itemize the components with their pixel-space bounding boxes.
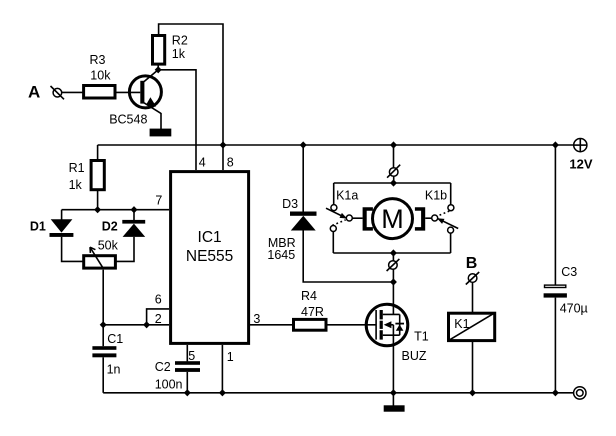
diode D1 bbox=[30, 210, 74, 237]
relay contact K1a bbox=[326, 189, 358, 232]
terminal A bbox=[28, 82, 64, 101]
resistor R1 bbox=[69, 145, 105, 192]
junction bridge top bbox=[390, 179, 397, 186]
junction pin2/6 bbox=[143, 321, 150, 328]
junction C3/rail bbox=[552, 389, 559, 396]
supply rail 12V (top) bbox=[98, 144, 574, 146]
junction rail/D3 bbox=[300, 141, 307, 148]
diode D3 MBR1645 bbox=[267, 145, 316, 262]
svg-text:D3: D3 bbox=[282, 197, 298, 211]
diode D2 bbox=[102, 210, 146, 237]
wire bridge top rail bbox=[334, 182, 451, 184]
junction C2/rail bbox=[184, 389, 191, 396]
svg-text:12V: 12V bbox=[569, 156, 592, 171]
svg-text:C3: C3 bbox=[561, 265, 577, 279]
capacitor C1 bbox=[92, 325, 123, 377]
wire R2 bottom / collector node to pin 4 bbox=[158, 66, 196, 171]
wire pin 1 to ground rail bbox=[221, 345, 223, 393]
svg-text:10k: 10k bbox=[90, 68, 111, 82]
junction T1/rail bbox=[390, 389, 397, 396]
svg-text:6: 6 bbox=[155, 293, 162, 307]
svg-text:R4: R4 bbox=[301, 289, 317, 303]
svg-text:C1: C1 bbox=[107, 332, 123, 346]
svg-text:R2: R2 bbox=[172, 33, 188, 47]
wire K1a top lead bbox=[333, 183, 335, 205]
pin 2/6 tie bbox=[147, 309, 169, 325]
junction rail/C3 bbox=[552, 141, 559, 148]
svg-text:T1: T1 bbox=[414, 330, 429, 344]
wire bridge bottom rail bbox=[333, 252, 450, 254]
MOSFET T1 BUZ bbox=[366, 282, 429, 363]
wire K1a to motor bbox=[352, 217, 362, 219]
12V terminal bbox=[569, 139, 592, 172]
motor M bbox=[363, 199, 426, 239]
relay coil K1 bbox=[448, 313, 495, 341]
wire C1 bottom to ground rail bbox=[102, 357, 104, 393]
svg-text:47R: 47R bbox=[301, 305, 324, 319]
svg-text:1: 1 bbox=[227, 350, 234, 364]
svg-text:1n: 1n bbox=[107, 363, 121, 377]
svg-text:470µ: 470µ bbox=[560, 302, 588, 316]
resistor R2 bbox=[153, 33, 188, 64]
junction pin1/rail bbox=[219, 389, 226, 396]
svg-text:M: M bbox=[381, 204, 404, 234]
svg-text:2: 2 bbox=[155, 312, 162, 326]
wire pin 5 to C2 bbox=[186, 345, 188, 361]
wire R1 bottom to pin7 node bbox=[97, 190, 99, 210]
wire D3 to drain node bbox=[303, 231, 393, 283]
junction D2/pin7 bbox=[131, 206, 138, 213]
wire ground stub bbox=[392, 393, 394, 406]
wire R2 top to pin8 line bbox=[159, 24, 223, 170]
wire 12V rail to C3 bbox=[554, 145, 556, 285]
svg-text:A: A bbox=[28, 82, 40, 101]
junction rail/bridge bbox=[390, 141, 397, 148]
wire pot wiper down to C1 node bbox=[102, 270, 104, 325]
relay contact K1b bbox=[425, 189, 458, 234]
junction pot/C1 bbox=[100, 321, 107, 328]
wire A to R3 bbox=[62, 91, 83, 93]
wire Q1 emitter to ground bbox=[160, 113, 162, 129]
svg-text:3: 3 bbox=[253, 312, 260, 326]
svg-text:R1: R1 bbox=[69, 161, 85, 175]
svg-text:IC1: IC1 bbox=[198, 229, 222, 246]
capacitor C3 470u bbox=[544, 265, 588, 316]
wire C2 bottom to ground rail bbox=[186, 372, 188, 393]
wire T1 source to ground rail bbox=[392, 335, 394, 393]
wire K1b bottom lead bbox=[450, 233, 452, 253]
junction bridge bottom bbox=[390, 249, 397, 256]
ground (Q1 emitter) bbox=[150, 129, 172, 137]
wire pin 3 to R4 bbox=[250, 324, 294, 326]
svg-text:D2: D2 bbox=[102, 220, 118, 234]
terminal B bbox=[466, 255, 479, 285]
wire B to relay K1 bbox=[472, 282, 474, 313]
svg-text:K1: K1 bbox=[454, 317, 469, 331]
svg-text:BC548: BC548 bbox=[109, 112, 147, 126]
potentiometer P1 50k bbox=[84, 238, 119, 269]
svg-text:5: 5 bbox=[188, 349, 195, 363]
svg-text:R3: R3 bbox=[90, 53, 106, 67]
bridge bottom connector bbox=[387, 253, 400, 282]
svg-text:C2: C2 bbox=[155, 360, 171, 374]
resistor R3 bbox=[84, 53, 115, 98]
wire D1 to pot left bbox=[62, 237, 84, 262]
IC1 NE555 bbox=[171, 172, 249, 344]
svg-text:1645: 1645 bbox=[267, 248, 295, 262]
svg-text:100n: 100n bbox=[155, 378, 183, 392]
transistor Q1 BC548 bbox=[109, 70, 161, 127]
junction collector node bbox=[155, 66, 162, 73]
svg-text:B: B bbox=[466, 255, 478, 272]
wire C1 node to pin2 bbox=[103, 324, 169, 326]
ground (T1 source) bbox=[384, 405, 405, 411]
wire R4 to T1 gate bbox=[326, 324, 376, 326]
junction drain node bbox=[390, 278, 397, 285]
wire K1b top lead bbox=[450, 183, 452, 205]
svg-text:D1: D1 bbox=[30, 219, 46, 233]
bridge top connector bbox=[387, 145, 400, 183]
capacitor C2 bbox=[155, 360, 200, 392]
resistor R4 bbox=[294, 289, 327, 330]
junction rail/pin8 bbox=[220, 141, 227, 148]
svg-text:NE555: NE555 bbox=[186, 248, 233, 265]
svg-text:K1b: K1b bbox=[425, 189, 447, 203]
wire C3 to ground rail bbox=[554, 298, 556, 393]
svg-text:4: 4 bbox=[199, 155, 206, 169]
wire D2 to pot right bbox=[116, 237, 135, 262]
output terminal (0V) bbox=[574, 387, 586, 399]
wire motor to K1b bbox=[425, 217, 432, 219]
svg-text:8: 8 bbox=[227, 155, 234, 169]
junction R1/pin7 bbox=[94, 206, 101, 213]
wire pin 7 horizontal bbox=[62, 209, 169, 211]
ground rail (bottom) bbox=[103, 392, 574, 394]
wire R3 to Q1 base bbox=[117, 91, 141, 93]
svg-text:50k: 50k bbox=[98, 238, 119, 252]
wire K1 to ground rail bbox=[472, 341, 474, 393]
svg-text:K1a: K1a bbox=[336, 189, 358, 203]
svg-text:BUZ: BUZ bbox=[402, 349, 427, 363]
svg-text:1k: 1k bbox=[172, 47, 186, 61]
svg-text:1k: 1k bbox=[69, 178, 83, 192]
svg-text:7: 7 bbox=[155, 194, 162, 208]
junction K1/rail bbox=[469, 389, 476, 396]
wire K1a bottom lead bbox=[332, 232, 334, 254]
